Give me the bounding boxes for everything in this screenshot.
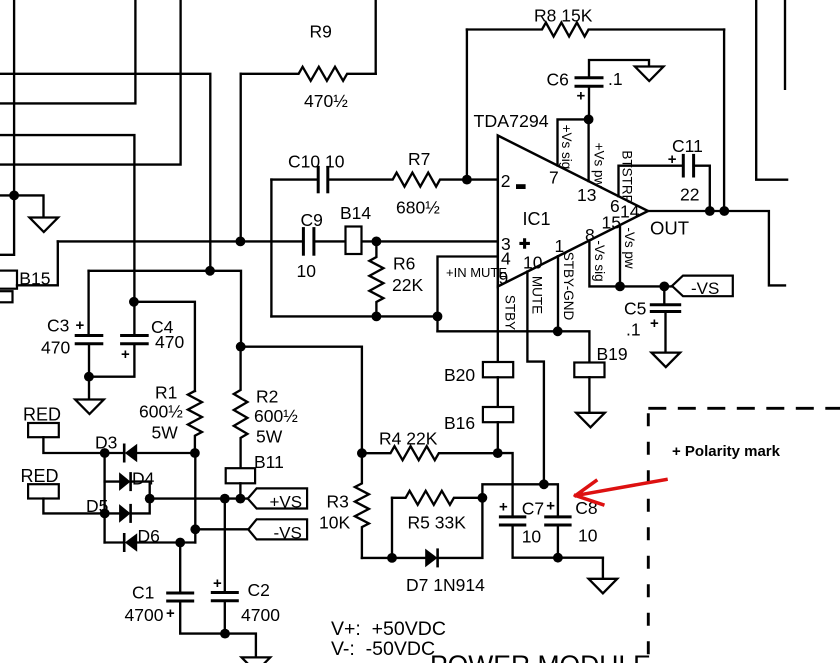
wire C1 bottom to ground node [180, 601, 225, 634]
wire pin 2 stub from node to triangle [467, 178, 498, 180]
svg-text:B19: B19 [597, 344, 628, 364]
svg-text:RED: RED [21, 466, 59, 486]
resistor R2 [234, 347, 248, 469]
wire D3 row [105, 452, 125, 454]
node C3 C4 ground junction [84, 372, 94, 382]
ferrite bead B19 [574, 363, 604, 378]
wire -Vs node to -VS flag [620, 285, 672, 287]
svg-text:+: + [76, 317, 85, 334]
diode D6 [123, 533, 126, 552]
wire bundle horizontal 3 corner down to C4 node [0, 135, 134, 335]
wire D3 to R1 node [137, 452, 195, 454]
power flag -VS [248, 519, 307, 539]
wire y=331 line to STBY-GND node and B19 corner [438, 331, 590, 362]
connector RED 2 [28, 484, 59, 498]
svg-text:470: 470 [155, 332, 184, 352]
wire pin 9 STBY down through beads [497, 287, 499, 363]
svg-text:.1: .1 [608, 69, 623, 89]
wire R3 bottom to D7 row [362, 557, 392, 559]
svg-text:POWER MODULE: POWER MODULE [430, 650, 651, 663]
wire D6 row right to -VS vertical [137, 541, 195, 543]
wire R9 left lead down to input line [240, 74, 242, 242]
wire pin 10 MUTE jog down to C8 bus [527, 272, 544, 484]
node x=210 on y=271 line [205, 266, 215, 276]
svg-text:4700: 4700 [125, 605, 164, 625]
svg-text:10: 10 [297, 261, 317, 281]
wire D4 cathode corner down to +VS node [131, 482, 150, 499]
ferrite bead B20 [483, 362, 513, 377]
ground symbol below C7 C8 [589, 579, 618, 594]
node C4 top junction [129, 297, 139, 307]
node R3 R4 junction [357, 448, 367, 458]
wire RED2 to AC2 node [43, 499, 104, 514]
node R8 OUT junction [719, 206, 729, 216]
wire pin 1 STBY-GND stub [557, 256, 559, 331]
svg-text:680½: 680½ [396, 198, 440, 218]
wire R5 branch up [391, 498, 393, 558]
node C6 bottom junction [584, 115, 594, 125]
svg-text:R4 22K: R4 22K [379, 429, 438, 449]
diode D7 1N914 [425, 549, 437, 568]
wire B16 to R4 node [497, 422, 499, 453]
wire C5 top lead [663, 286, 665, 304]
node junction x=14 y=195 [9, 191, 19, 201]
wire C5 to ground [664, 312, 666, 353]
wire R2 node right corner down to R4 node [241, 347, 362, 454]
capacitor C10 [317, 167, 320, 191]
capacitor C3 [76, 334, 102, 337]
wire C6 top to ground [589, 60, 649, 78]
wire D7 cathode corner up to R5 node [438, 498, 483, 558]
node MUTE drop on bus [539, 479, 549, 489]
wire pin 13 +Vs pw up to C6 node [587, 119, 589, 181]
wire pin 4 stub to node and down to y=331 line [438, 257, 498, 332]
dashed outline power module box [648, 407, 840, 410]
node R5 right junction [478, 493, 488, 503]
svg-text:+ Polarity mark: + Polarity mark [672, 443, 781, 460]
node R5 D7 left junction [387, 553, 397, 563]
wire RED1 to AC1 node [43, 437, 104, 453]
svg-text:10: 10 [578, 525, 598, 545]
svg-text:IC1: IC1 [523, 209, 551, 229]
wire between B20 and B16 [497, 377, 499, 407]
ferrite bead B11 [226, 468, 255, 483]
connector fragment below B15 [0, 291, 13, 302]
svg-text:R9: R9 [310, 22, 332, 42]
resistor R8 [467, 23, 724, 37]
resistor R6 [369, 241, 383, 316]
wire B11 to +VS node [239, 483, 241, 498]
svg-text:-Vs sig: -Vs sig [592, 240, 607, 281]
capacitor C4 [122, 334, 148, 337]
svg-text:+: + [650, 315, 659, 332]
wire D5 cathode corner up to +VS node [131, 499, 150, 514]
svg-text:-VS: -VS [274, 524, 302, 543]
diode D3 [123, 444, 126, 463]
svg-text:STBY-GND: STBY-GND [561, 252, 576, 321]
ground symbol below C5 [652, 353, 681, 368]
resistor R9 [241, 67, 376, 81]
node D3 R1 junction [190, 448, 200, 458]
diode D4 [119, 472, 130, 491]
wire C3 drop [87, 271, 89, 336]
wire C2 bottom to ground node [224, 601, 226, 634]
wire +VS rail [150, 497, 248, 499]
node -Vs junction [615, 282, 625, 292]
svg-text:R6: R6 [393, 254, 415, 274]
resistor R1 [188, 391, 202, 453]
capacitor C5 [651, 303, 679, 306]
ground symbol for C6 [635, 67, 664, 82]
capacitor C7 [500, 515, 524, 518]
wire bundle top-left horizontal 1 with corner down at x=210 [0, 74, 210, 271]
wire ground branch from node [14, 195, 43, 217]
svg-text:+IN MUTE: +IN MUTE [446, 265, 507, 280]
power flag +VS [248, 488, 307, 508]
svg-text:600½: 600½ [254, 406, 298, 426]
wire top right vertical 1 corner right dead end [756, 0, 787, 180]
ground symbol below C3 C4 [75, 400, 104, 415]
wire gnd bus corner down [602, 558, 604, 579]
wire R9 right lead up to top edge [375, 0, 377, 74]
wire D7 row [392, 557, 425, 559]
svg-text:+: + [121, 346, 130, 363]
node C2 top on +VS rail [220, 494, 230, 504]
capacitor C11 [682, 155, 685, 176]
capacitor C8 [546, 515, 570, 518]
node C5 top [659, 282, 669, 292]
wire C2 top lead crossing -VS rail [224, 499, 226, 593]
svg-text:OUT: OUT [650, 218, 689, 239]
node C1 C2 ground junction [220, 629, 230, 639]
svg-text:D7 1N914: D7 1N914 [406, 575, 485, 595]
svg-text:D5: D5 [86, 496, 108, 516]
svg-text:+: + [499, 499, 508, 516]
wire C4 node to R1 drop [134, 302, 195, 391]
wire D5 row [105, 512, 119, 514]
node STBY-GND pin1 junction [553, 326, 563, 336]
wire R4 node right corner down to C7 [498, 453, 513, 517]
svg-text:R3: R3 [327, 491, 349, 511]
svg-text:B14: B14 [340, 203, 371, 223]
svg-text:15: 15 [602, 213, 621, 233]
node D4 D5 +VS junction [145, 494, 155, 504]
svg-text:C1: C1 [132, 583, 154, 603]
ground symbol below B19 [576, 413, 605, 428]
node -VS branch [190, 524, 200, 534]
wire AC vertical joining D3 D4 D5 D6 rows [103, 453, 105, 543]
wire vertical from top edge at x=14 to corner left at y=255 [0, 0, 14, 255]
wire from B15 up to input line [17, 241, 58, 285]
svg-text:7: 7 [549, 168, 559, 188]
wire C8 bottom [557, 525, 559, 558]
wire C4 bottom jog to ground node [89, 344, 134, 377]
wire D6 row left [105, 541, 125, 543]
svg-text:C11: C11 [672, 136, 703, 156]
wire C10 branch corner to C10 left plate [271, 178, 318, 180]
svg-text:RED: RED [23, 405, 61, 425]
svg-text:470½: 470½ [304, 91, 348, 111]
svg-text:470: 470 [41, 338, 70, 358]
wire pin 6 BTSTRP up and right to C11 [619, 166, 684, 197]
inverting input minus symbol [516, 184, 526, 189]
svg-text:V+: +50VDC: V+: +50VDC [331, 618, 446, 640]
wire D4 row [105, 480, 120, 482]
svg-text:TDA7294: TDA7294 [474, 111, 549, 131]
wire top right vertical 2 dead end [784, 0, 786, 89]
svg-text:STBY: STBY [503, 295, 518, 330]
svg-text:5W: 5W [152, 423, 179, 443]
capacitor C1 [168, 592, 193, 595]
wire C11 right to OUT node [694, 166, 710, 211]
svg-text:+: + [668, 151, 677, 168]
connector RED 1 [28, 423, 59, 437]
svg-text:B11: B11 [254, 452, 284, 472]
svg-text:.1: .1 [626, 320, 641, 340]
wire C7 bottom to gnd bus [513, 525, 603, 558]
ferrite bead B15 [0, 271, 17, 289]
wire mute bus from R5 node up and right to C8 lead [482, 484, 558, 517]
svg-text:+: + [166, 605, 175, 622]
svg-text:R2: R2 [256, 387, 278, 407]
svg-text:4700: 4700 [241, 605, 280, 625]
svg-text:600½: 600½ [139, 402, 183, 422]
svg-text:D3: D3 [95, 433, 117, 453]
svg-text:2: 2 [501, 171, 511, 191]
svg-text:B20: B20 [444, 365, 475, 385]
node B11 bottom on +VS rail [236, 494, 246, 504]
power flag -VS right [672, 276, 733, 297]
svg-text:C5: C5 [624, 299, 646, 319]
svg-text:C10 10: C10 10 [288, 152, 345, 172]
svg-text:R5 33K: R5 33K [408, 513, 467, 533]
ground symbol near B15 [30, 218, 59, 233]
wire R6 bottom line from feedback vertical to pin4 node [271, 315, 437, 317]
svg-text:+: + [577, 88, 586, 105]
resistor R5 [392, 491, 482, 505]
wire feedback branch vertical crossing input line [270, 180, 272, 317]
wire pin 7 +Vs sig up to C6 node [558, 119, 589, 165]
wire bundle horizontal 4 corner up to top edge [0, 0, 181, 165]
wire C6 lead down to node [588, 86, 590, 119]
svg-text:MUTE: MUTE [529, 276, 544, 314]
wire ground corner bottom left [225, 634, 256, 658]
svg-text:R8 15K: R8 15K [534, 6, 593, 26]
node C8 bottom on gnd bus [553, 553, 563, 563]
capacitor C6 [576, 76, 602, 79]
wire C9 right plate to pin 3 of IC [314, 240, 498, 242]
wire pin 15 -Vs pw down to node [619, 225, 621, 286]
svg-text:+Vs pw: +Vs pw [592, 143, 607, 188]
node AC1 D3 anode-side [100, 448, 110, 458]
wire OUT from apex to right with corner down [648, 211, 785, 285]
ferrite bead B16 [483, 407, 513, 422]
node C11 OUT junction [705, 206, 715, 216]
wire -VS vertical from D3 node down to D6 row [194, 453, 196, 543]
svg-text:+: + [546, 498, 555, 515]
capacitor C9 [302, 229, 305, 255]
svg-text:+VS: +VS [270, 493, 303, 512]
node R6 bottom [372, 312, 382, 322]
wire bundle horizontal 2 corner up to top edge [0, 0, 135, 103]
svg-text:C3: C3 [47, 315, 69, 335]
op-amp IC1 TDA7294 triangle [498, 136, 648, 287]
svg-text:B16: B16 [444, 413, 475, 433]
svg-text:R1: R1 [155, 383, 177, 403]
svg-text:22: 22 [680, 184, 699, 204]
node AC2 D5 junction [100, 509, 110, 519]
node R2 top [236, 342, 246, 352]
svg-text:C6: C6 [547, 70, 569, 90]
wire stub left edge y=195 [0, 194, 14, 196]
svg-text:D4: D4 [132, 469, 155, 489]
svg-text:10: 10 [522, 527, 542, 547]
resistor R3 [355, 453, 369, 558]
node R7 R8 pin2 junction [462, 175, 472, 185]
node R9 drop on input line [236, 237, 246, 247]
node B14 to R6 junction [372, 237, 382, 247]
svg-text:-VS: -VS [691, 279, 719, 298]
svg-text:14: 14 [620, 202, 640, 222]
node pin4 R6 junction [433, 312, 443, 322]
wire C1 top lead [179, 543, 181, 594]
wire R8 right corner down to OUT node [723, 30, 725, 212]
wire main input line B15 corner to C9 left plate [58, 240, 304, 242]
svg-text:13: 13 [577, 185, 596, 205]
node C1 top [175, 538, 185, 548]
wire -VS rail [195, 528, 248, 530]
wire horizontal y=271 from C3 drop to corner down at x=241 [89, 271, 241, 347]
node R4 B16 junction [493, 448, 503, 458]
resistor R4 [362, 446, 498, 460]
svg-text:+Vs sig: +Vs sig [559, 125, 574, 170]
svg-text:10K: 10K [319, 513, 350, 533]
wire R8 left drop to pin2 node [466, 30, 468, 180]
svg-text:R7: R7 [408, 149, 430, 169]
ferrite bead B14 [346, 227, 362, 255]
non-inverting input plus symbol [519, 238, 530, 249]
diode D5 [119, 504, 130, 523]
svg-text:10: 10 [523, 253, 543, 273]
svg-text:5W: 5W [256, 427, 283, 447]
svg-text:C7: C7 [522, 499, 544, 519]
wire C3 bottom to ground node [88, 344, 90, 400]
capacitor C2 [212, 591, 237, 594]
svg-text:22K: 22K [392, 275, 423, 295]
resistor R7 [328, 173, 467, 187]
wire pin 8 -Vs sig down and right [589, 240, 620, 286]
red arrow pointing at C7 C8 polarity [576, 480, 667, 505]
svg-text:C2: C2 [248, 580, 270, 600]
wire B19 to ground [588, 377, 590, 412]
ground symbol bottom left cut off [242, 657, 271, 663]
svg-text:BTSTRP: BTSTRP [620, 150, 635, 203]
svg-text:-Vs pw: -Vs pw [622, 227, 637, 269]
svg-text:V-: -50VDC: V-: -50VDC [331, 638, 435, 660]
svg-text:+: + [213, 575, 222, 592]
svg-text:C9: C9 [301, 210, 323, 230]
